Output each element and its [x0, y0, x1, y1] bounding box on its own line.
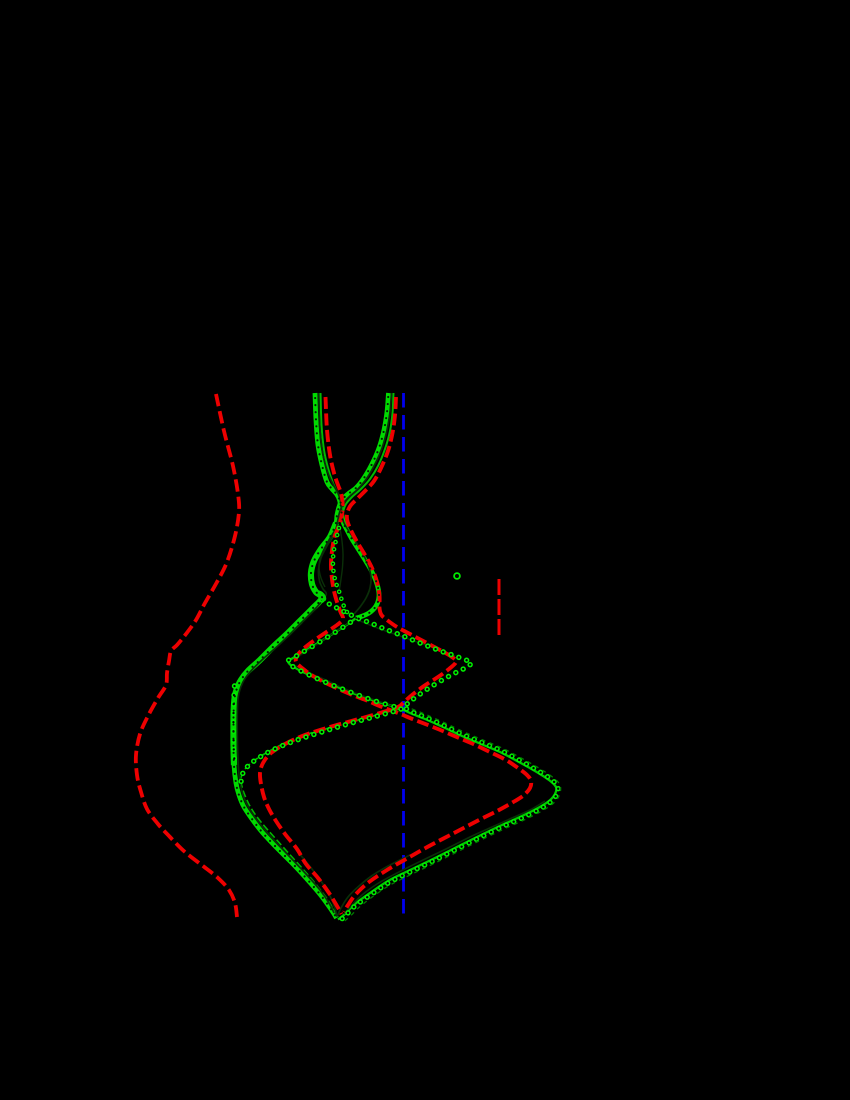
red dashed trajectory B	[260, 397, 456, 914]
legend green ring marker	[454, 573, 460, 579]
dark outline diamond UR	[360, 621, 455, 656]
dotted rings on onion left vertical	[233, 686, 234, 762]
thin green continuation: diamond edges, crossing, right bulge, bottom edge	[288, 618, 556, 920]
inner lens dotted edge	[333, 528, 351, 616]
faint outer dotted row on bottom right edge	[343, 709, 561, 923]
thin green top strand 2	[342, 393, 394, 520]
dark outline diamond UL	[295, 621, 352, 659]
dark leaf inside left lobe	[319, 527, 337, 587]
thick green right bundle and right lobe	[233, 393, 388, 918]
dark outline strand 1	[319, 393, 372, 614]
dark outline strand 2	[237, 393, 391, 913]
dotted rings on diamond UL and LL edges	[288, 618, 399, 708]
dotted ring strand: knot to diamond to crossing to left	[241, 600, 472, 783]
thin green onion-left diagonal	[241, 709, 399, 916]
knot blob	[315, 589, 328, 603]
dark dot speckles on right bundle	[233, 393, 388, 918]
dark outline bottom right edge	[344, 801, 545, 914]
dark outline bottom V	[298, 852, 410, 916]
dark outline diamond LL	[296, 666, 392, 706]
left red dashed wavy curve	[136, 394, 239, 917]
blue dashed vertical reference line	[402, 393, 405, 917]
thin green top strand 1	[321, 393, 343, 520]
red dashed trajectory A	[296, 397, 532, 912]
legend red dashed segment	[498, 579, 501, 636]
dotted ring row outside onion right edge	[340, 707, 559, 922]
dark lens right edge	[340, 528, 344, 589]
thick green band emphasis	[233, 523, 336, 765]
dark dot speckles on main spiral	[315, 393, 379, 618]
thick green main spiral	[315, 393, 379, 618]
